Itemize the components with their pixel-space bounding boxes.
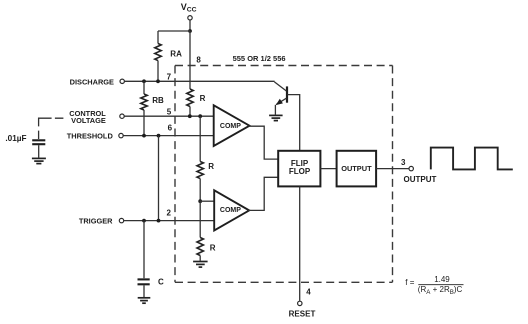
emitter arrowhead	[276, 99, 283, 105]
output block	[337, 151, 377, 187]
svg-text:4: 4	[306, 288, 311, 297]
capacitor .01uF with dashed hookup to control voltage	[5, 118, 63, 158]
svg-text:5: 5	[167, 107, 172, 116]
svg-text:RA: RA	[170, 49, 182, 58]
ground at transistor emitter	[269, 115, 283, 120]
svg-text:TRIGGER: TRIGGER	[79, 217, 113, 226]
resistor R (top divider)	[187, 89, 206, 116]
node TRIGGER terminal	[79, 217, 124, 226]
emitter stub	[274, 105, 276, 115]
node VCC terminal	[181, 2, 197, 20]
svg-text:8: 8	[196, 56, 201, 65]
transistor Q1 discharge	[274, 82, 288, 115]
svg-text:RB: RB	[152, 96, 164, 105]
resistor R (bottom divider)	[197, 238, 216, 261]
node junction comp2 plus input	[198, 199, 202, 203]
svg-text:f =: f =	[405, 278, 414, 287]
wire flip flop to output block	[320, 168, 336, 170]
svg-text:R: R	[210, 243, 216, 252]
svg-text:6: 6	[168, 123, 173, 132]
svg-text:OUTPUT: OUTPUT	[341, 164, 372, 173]
output square waveform	[431, 148, 513, 170]
op-amp COMP1 (threshold comparator)	[214, 105, 250, 146]
wire divider tap down to bottom R	[199, 201, 201, 237]
wire comp2 output	[248, 177, 278, 210]
wire pin8 vertical from VCC junction down to divider R	[189, 31, 191, 89]
node junction RA bottom	[156, 79, 160, 83]
wire threshold to trigger tie	[158, 136, 160, 221]
svg-text:R: R	[200, 94, 206, 103]
node junction divider R bottom	[188, 114, 192, 118]
svg-text:FLOP: FLOP	[289, 167, 311, 176]
op-amp COMP2 (trigger comparator)	[214, 190, 249, 230]
wire trigger line to comparator 2 lower input	[124, 220, 214, 222]
wire discharge line to transistor collector	[125, 80, 275, 82]
node OUTPUT terminal	[404, 166, 437, 184]
svg-text:COMP: COMP	[220, 123, 241, 130]
ground below C	[138, 298, 151, 303]
svg-text:COMP: COMP	[220, 207, 241, 214]
resistor RA	[155, 31, 182, 81]
wire control voltage line to comparator 1	[125, 115, 214, 117]
svg-text:7: 7	[167, 73, 172, 82]
wire base to flip flop	[287, 95, 299, 151]
svg-text:RESET: RESET	[289, 309, 316, 318]
node junction RB top	[142, 79, 146, 83]
svg-text:VOLTAGE: VOLTAGE	[71, 116, 106, 125]
node THRESHOLD terminal	[67, 132, 123, 141]
node VCC junction	[188, 29, 192, 33]
wire VCC junction to RA top	[158, 30, 190, 32]
dashed IC boundary box 555	[175, 66, 393, 283]
svg-text:R: R	[208, 162, 214, 171]
svg-text:555 OR 1/2 556: 555 OR 1/2 556	[233, 54, 286, 63]
wire VCC down to junction	[189, 20, 191, 31]
node junction tie bottom	[157, 219, 161, 223]
flip flop U1	[278, 151, 320, 187]
node junction C top	[142, 219, 146, 223]
wire comp2 plus input	[200, 200, 214, 202]
node junction RB bottom	[142, 134, 146, 138]
node junction divider tap	[198, 114, 202, 118]
svg-text:C: C	[158, 277, 164, 286]
node junction threshold-trigger tie	[157, 134, 161, 138]
ground below .01uF	[32, 158, 46, 163]
wire flip flop to reset terminal	[299, 187, 301, 301]
resistor RB	[141, 81, 164, 135]
svg-text:1.49: 1.49	[434, 275, 450, 284]
frequency formula f = 1.49/((RA+2RB)C)	[405, 275, 463, 296]
wire output to terminal	[376, 168, 409, 170]
svg-text:2: 2	[167, 209, 172, 218]
node RESET terminal	[289, 301, 316, 318]
svg-text:THRESHOLD: THRESHOLD	[67, 132, 114, 141]
svg-text:DISCHARGE: DISCHARGE	[70, 78, 114, 87]
capacitor C	[138, 221, 165, 297]
svg-text:.01µF: .01µF	[5, 134, 26, 143]
emitter diagonal	[276, 98, 286, 104]
wire divider tap down to middle R	[199, 116, 201, 161]
ground below bottom R	[193, 262, 208, 268]
svg-text:3: 3	[401, 158, 406, 167]
wire threshold line to comparator 1 lower input	[124, 135, 214, 137]
svg-text:OUTPUT: OUTPUT	[404, 175, 437, 184]
node DISCHARGE terminal	[70, 78, 125, 87]
node CONTROL VOLTAGE terminal	[69, 109, 124, 125]
base bar	[286, 86, 288, 102]
wire comp1 output	[249, 126, 279, 159]
resistor R (middle divider)	[197, 162, 214, 202]
collector diagonal	[274, 82, 286, 91]
